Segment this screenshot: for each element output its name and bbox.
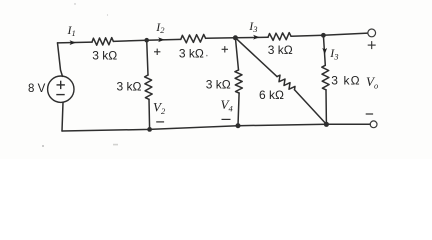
wire: bottom rail (62, 124, 370, 131)
wire: branch A lower (148, 99, 151, 129)
polarity + at top output terminal (368, 41, 376, 49)
svg-text:I3: I3 (248, 19, 257, 34)
wire: R2 to node B (206, 37, 236, 40)
svg-text:I3: I3 (329, 46, 338, 61)
wire: branch B lower (238, 93, 239, 126)
wire: branch A upper (147, 40, 148, 75)
wire: R1 to node A (113, 40, 146, 41)
svg-text:I2: I2 (155, 20, 165, 35)
minus of V2 (156, 121, 164, 123)
svg-text:3 kΩ: 3 kΩ (268, 43, 293, 57)
scan speck 5 (107, 14, 108, 15)
voltage source VS 8 V (48, 76, 74, 102)
svg-text:I1: I1 (67, 23, 76, 38)
svg-text:3 kΩ: 3 kΩ (92, 49, 117, 63)
wire: branch C lower (325, 90, 327, 125)
svg-text:3 kΩ: 3 kΩ (117, 80, 142, 94)
wire: R3 to node C (291, 34, 323, 37)
polarity + of V4 (222, 46, 228, 52)
svg-text:8 V: 8 V (28, 83, 46, 95)
resistor R5 3 kΩ (vertical below node B) (235, 70, 243, 93)
svg-text:V4: V4 (221, 97, 234, 114)
svg-text:6 kΩ: 6 kΩ (259, 88, 284, 102)
current arrow I2 (158, 37, 164, 42)
svg-text:3 kΩ: 3 kΩ (331, 74, 360, 88)
resistor R3 3 kΩ (top horizontal right) (268, 33, 291, 41)
svg-text:3 kΩ: 3 kΩ (206, 77, 231, 91)
resistor R4 3 kΩ (vertical below node A) (145, 75, 153, 99)
wire: source bottom to bottom-left corner (62, 102, 63, 131)
wire: diagonal lower segment to bottom node c (295, 90, 327, 125)
node B junction dot (233, 35, 238, 40)
wire: branch B upper (235, 38, 238, 70)
current arrow I1 (70, 40, 76, 45)
svg-text:Vo: Vo (366, 74, 378, 91)
wire: node C to top output terminal (323, 33, 367, 35)
current arrow I3 (right branch, down) (322, 48, 327, 54)
top output terminal (open circle) (368, 29, 376, 37)
minus of V4 (222, 118, 231, 120)
wire: top-left corner down to source top (58, 43, 63, 77)
wire: node A to R2 (147, 38, 181, 41)
wire: diagonal upper segment from node B (235, 38, 277, 77)
node A junction dot (144, 38, 149, 43)
polarity + of V2 (154, 49, 160, 55)
wire: top rail left segment (58, 41, 93, 44)
current arrow I3 (top) (253, 35, 259, 40)
bottom node b junction dot (236, 123, 241, 128)
scan speck 1 (42, 145, 44, 147)
bottom node c junction dot (324, 122, 329, 127)
svg-text:3 kΩ: 3 kΩ (179, 46, 204, 60)
svg-text:V2: V2 (153, 100, 166, 117)
polarity − at bottom output terminal (366, 113, 373, 115)
scan speck 2 (113, 144, 118, 146)
wire: node B to R3 (235, 36, 268, 39)
node C junction dot (321, 33, 326, 38)
scan speck 4 (74, 3, 75, 4)
resistor R6 6 kΩ (diagonal) (277, 75, 295, 90)
scan speck 3 (206, 55, 208, 57)
wire: branch C upper (323, 35, 325, 65)
resistor R1 3 kΩ (top horizontal left) (92, 38, 113, 46)
bottom node a junction dot (147, 127, 152, 132)
resistor R2 3 kΩ (top horizontal middle) (181, 34, 206, 42)
resistor R7 3 kΩ (right vertical below node C) (322, 65, 329, 90)
bottom output terminal (open circle) (370, 121, 377, 128)
